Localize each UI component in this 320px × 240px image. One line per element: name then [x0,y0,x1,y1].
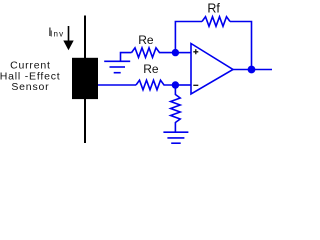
wire primary current conductor [84,16,86,144]
svg-text:Rf: Rf [207,1,220,15]
wire feedback to output [230,22,252,70]
sensor (Hall-effect element) [72,58,98,99]
resistor Re (top) [132,48,176,58]
node OUT (output junction) [248,66,256,74]
wire output [233,69,272,71]
node B (inverting input junction) [172,81,179,88]
svg-text:Re: Re [138,33,154,47]
svg-text:Re: Re [143,62,159,76]
resistor Rg (vertical, node B to ground) [171,85,181,132]
wire node B to op-amp - input [175,84,191,86]
resistor Re (bottom) [136,80,175,90]
node A (noninverting input junction) [172,49,179,56]
wire feedback riser from node A [175,22,202,53]
op-amp U1 [191,44,233,95]
resistor Rf [202,17,230,27]
label Iinv [48,25,64,39]
wire sensor output [98,84,136,86]
ground G2 (bottom) [163,132,188,143]
ground G1 (left end of top Re) [104,53,131,73]
current arrow Iinv [63,26,73,50]
svg-text:Sensor: Sensor [11,81,49,93]
label: Current Hall-Effect Sensor [0,60,60,94]
wire node A to op-amp + input [175,52,191,54]
svg-text:Inv: Inv [50,30,64,39]
